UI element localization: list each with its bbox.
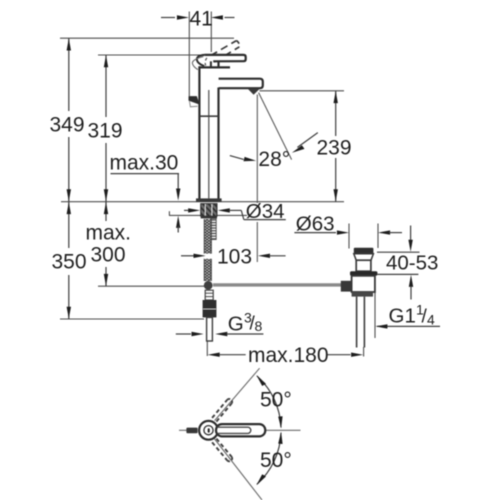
svg-text:50°: 50° [260, 389, 292, 412]
top view 50deg lower ray [215, 439, 262, 500]
top view spout stub [186, 428, 197, 434]
body inner line [208, 90, 210, 198]
dim 239 line [335, 91, 337, 136]
svg-text:Ø34: Ø34 [246, 200, 285, 223]
G3/8 fitting [203, 300, 217, 317]
svg-text:max.: max. [86, 222, 132, 245]
hose ball joint [204, 281, 213, 290]
body right edge (below spout) [217, 88, 219, 199]
dim 28deg [230, 156, 244, 160]
top view dashed handle lower [212, 439, 232, 461]
hose collar [205, 290, 213, 300]
braid gap at 103 arrow [204, 254, 212, 259]
top view handle [216, 424, 265, 436]
41 left surface arrow [189, 96, 200, 105]
extension line: 350 ref [60, 318, 204, 320]
lever swing arc [192, 57, 203, 70]
dim 40-53 [377, 251, 420, 253]
tail pipe extension line [363, 347, 365, 357]
top view 50deg upper ray [215, 368, 260, 420]
svg-text:max.30: max.30 [110, 152, 179, 175]
dim max.180 [208, 353, 220, 357]
dim O34 [184, 209, 189, 211]
dim G3/8 [176, 333, 191, 335]
extension line: 41 right [210, 12, 212, 53]
tail pipe [356, 297, 358, 348]
extension line: top of raised lever (349 ref) [60, 37, 234, 39]
svg-text:50°: 50° [260, 449, 292, 472]
top view centerline left [179, 429, 187, 431]
plumb line from spout [256, 95, 258, 204]
top view body circle [199, 421, 218, 440]
dim max300 line [105, 202, 107, 221]
threaded mounting stud [211, 219, 217, 240]
extension line: 41 left [188, 12, 190, 97]
body top edge [199, 66, 230, 68]
top view dashed handle upper [212, 400, 232, 422]
svg-text:4: 4 [427, 312, 435, 328]
cartridge neck [210, 61, 212, 67]
pop-up rod (horizontal) [213, 283, 341, 286]
base flange [196, 198, 222, 202]
svg-text:40-53: 40-53 [386, 252, 438, 275]
counter underside line [169, 214, 247, 216]
dim 41 [161, 17, 175, 19]
waste body [352, 276, 375, 292]
body left edge [198, 66, 200, 198]
spout outlet wedge [248, 89, 260, 95]
extension line: spout outlet level (239 ref) [260, 90, 345, 92]
extension line: hose end (max300 ref) [98, 285, 205, 287]
waste flange extension lines (O63) [348, 224, 350, 249]
supply tube [207, 317, 213, 341]
svg-text:8: 8 [255, 318, 263, 334]
braided hose [204, 219, 211, 281]
spout arm [219, 79, 263, 89]
rod clevis [341, 281, 352, 292]
waste neck [356, 260, 371, 271]
mounting nut (hatched) [201, 204, 217, 217]
dim 350 line [68, 202, 70, 248]
50deg upper arc [257, 376, 281, 428]
hose end extension line [206, 341, 208, 356]
svg-text:28°: 28° [258, 148, 290, 171]
waste bottom nut [352, 292, 373, 297]
svg-text:300: 300 [91, 244, 126, 267]
waste o-ring [350, 271, 377, 276]
body seam [199, 115, 218, 117]
stream angle line [259, 93, 292, 160]
dim 239 text [315, 137, 354, 157]
dim 349 line [68, 38, 70, 111]
mounting nut bottom bar [201, 216, 217, 219]
dim G1 1/4 [377, 325, 440, 327]
50deg lower arc [257, 433, 281, 485]
svg-text:350: 350 [52, 251, 87, 274]
svg-text:G1: G1 [389, 305, 416, 328]
svg-text:G: G [228, 313, 244, 336]
waste flange taper [354, 254, 374, 260]
svg-text:41: 41 [190, 8, 213, 31]
counter underside tick [168, 211, 170, 215]
svg-text:max.180: max.180 [248, 344, 329, 367]
svg-text:349: 349 [50, 114, 85, 137]
raised lever dashed outline [211, 41, 237, 56]
dim 103 [181, 255, 195, 257]
top view centerline right [266, 429, 301, 431]
dim 319 line [105, 55, 107, 117]
pop-up waste flange [354, 248, 374, 254]
waste body right extension line [374, 276, 376, 338]
lever pivot dashed arc [205, 58, 207, 66]
extension line: top of lever (319 ref) [98, 54, 200, 56]
lever front curl [197, 55, 205, 66]
svg-text:103: 103 [217, 246, 252, 269]
faucet lever bar [205, 55, 246, 61]
svg-text:239: 239 [317, 137, 352, 160]
countertop line [61, 201, 344, 203]
svg-text:319: 319 [88, 120, 123, 143]
